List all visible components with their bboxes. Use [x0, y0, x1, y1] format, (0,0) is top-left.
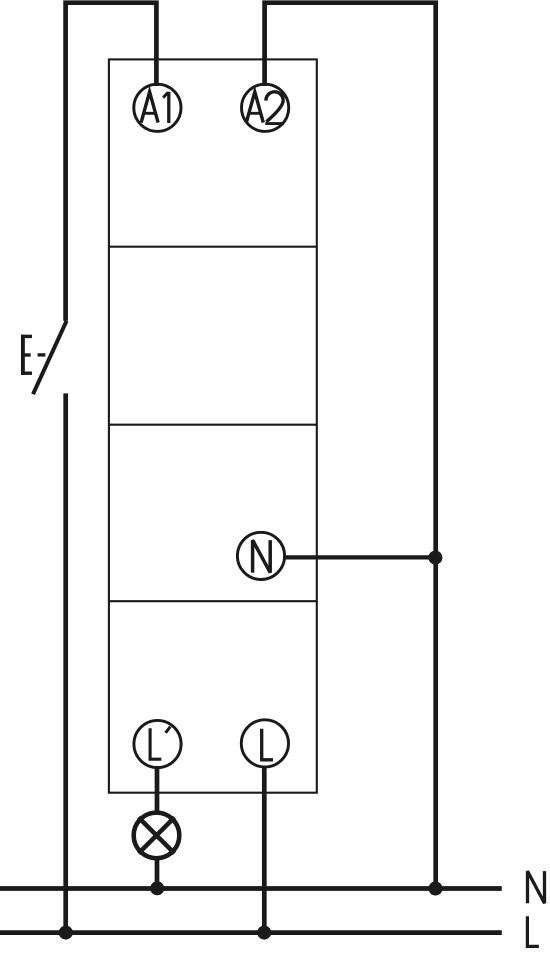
- junction dot: L terminal wire on L bus: [257, 926, 271, 940]
- wire: L terminal to L bus: [262, 766, 267, 933]
- terminal L: [241, 720, 288, 767]
- wire: lamp to N bus: [155, 858, 160, 889]
- wire: drop from terminal A2 + top bridge + right drop to N bus: [265, 3, 436, 889]
- wire: left drop to switch + top bridge + drop to terminal A1: [66, 3, 157, 321]
- N bus line: [0, 886, 502, 891]
- label N (bus): [528, 871, 545, 903]
- L bus line: [0, 930, 502, 935]
- lamp: [134, 813, 180, 859]
- dash from E to blade: [38, 353, 46, 356]
- junction dot: switch wire on L bus: [59, 926, 73, 940]
- wire: switch bottom to L bus: [63, 393, 68, 932]
- divider line 1: [109, 246, 317, 248]
- wire: L' terminal to lamp: [155, 766, 160, 813]
- terminal A2: [242, 84, 289, 131]
- divider line 3: [109, 600, 317, 602]
- junction dot: lamp wire on N bus: [150, 881, 164, 895]
- junction dot: N terminal wire on right drop: [428, 551, 442, 565]
- wire: N terminal to right drop: [284, 555, 436, 559]
- label E: [21, 335, 32, 375]
- divider line 2: [109, 424, 317, 426]
- switch E blade: [33, 321, 67, 394]
- terminal L': [134, 720, 181, 767]
- terminal A1: [134, 84, 181, 131]
- junction dot: right drop on N bus: [429, 882, 443, 896]
- terminal N: [237, 532, 284, 579]
- device outline rectangle: [109, 59, 317, 792]
- label L (bus): [527, 916, 539, 946]
